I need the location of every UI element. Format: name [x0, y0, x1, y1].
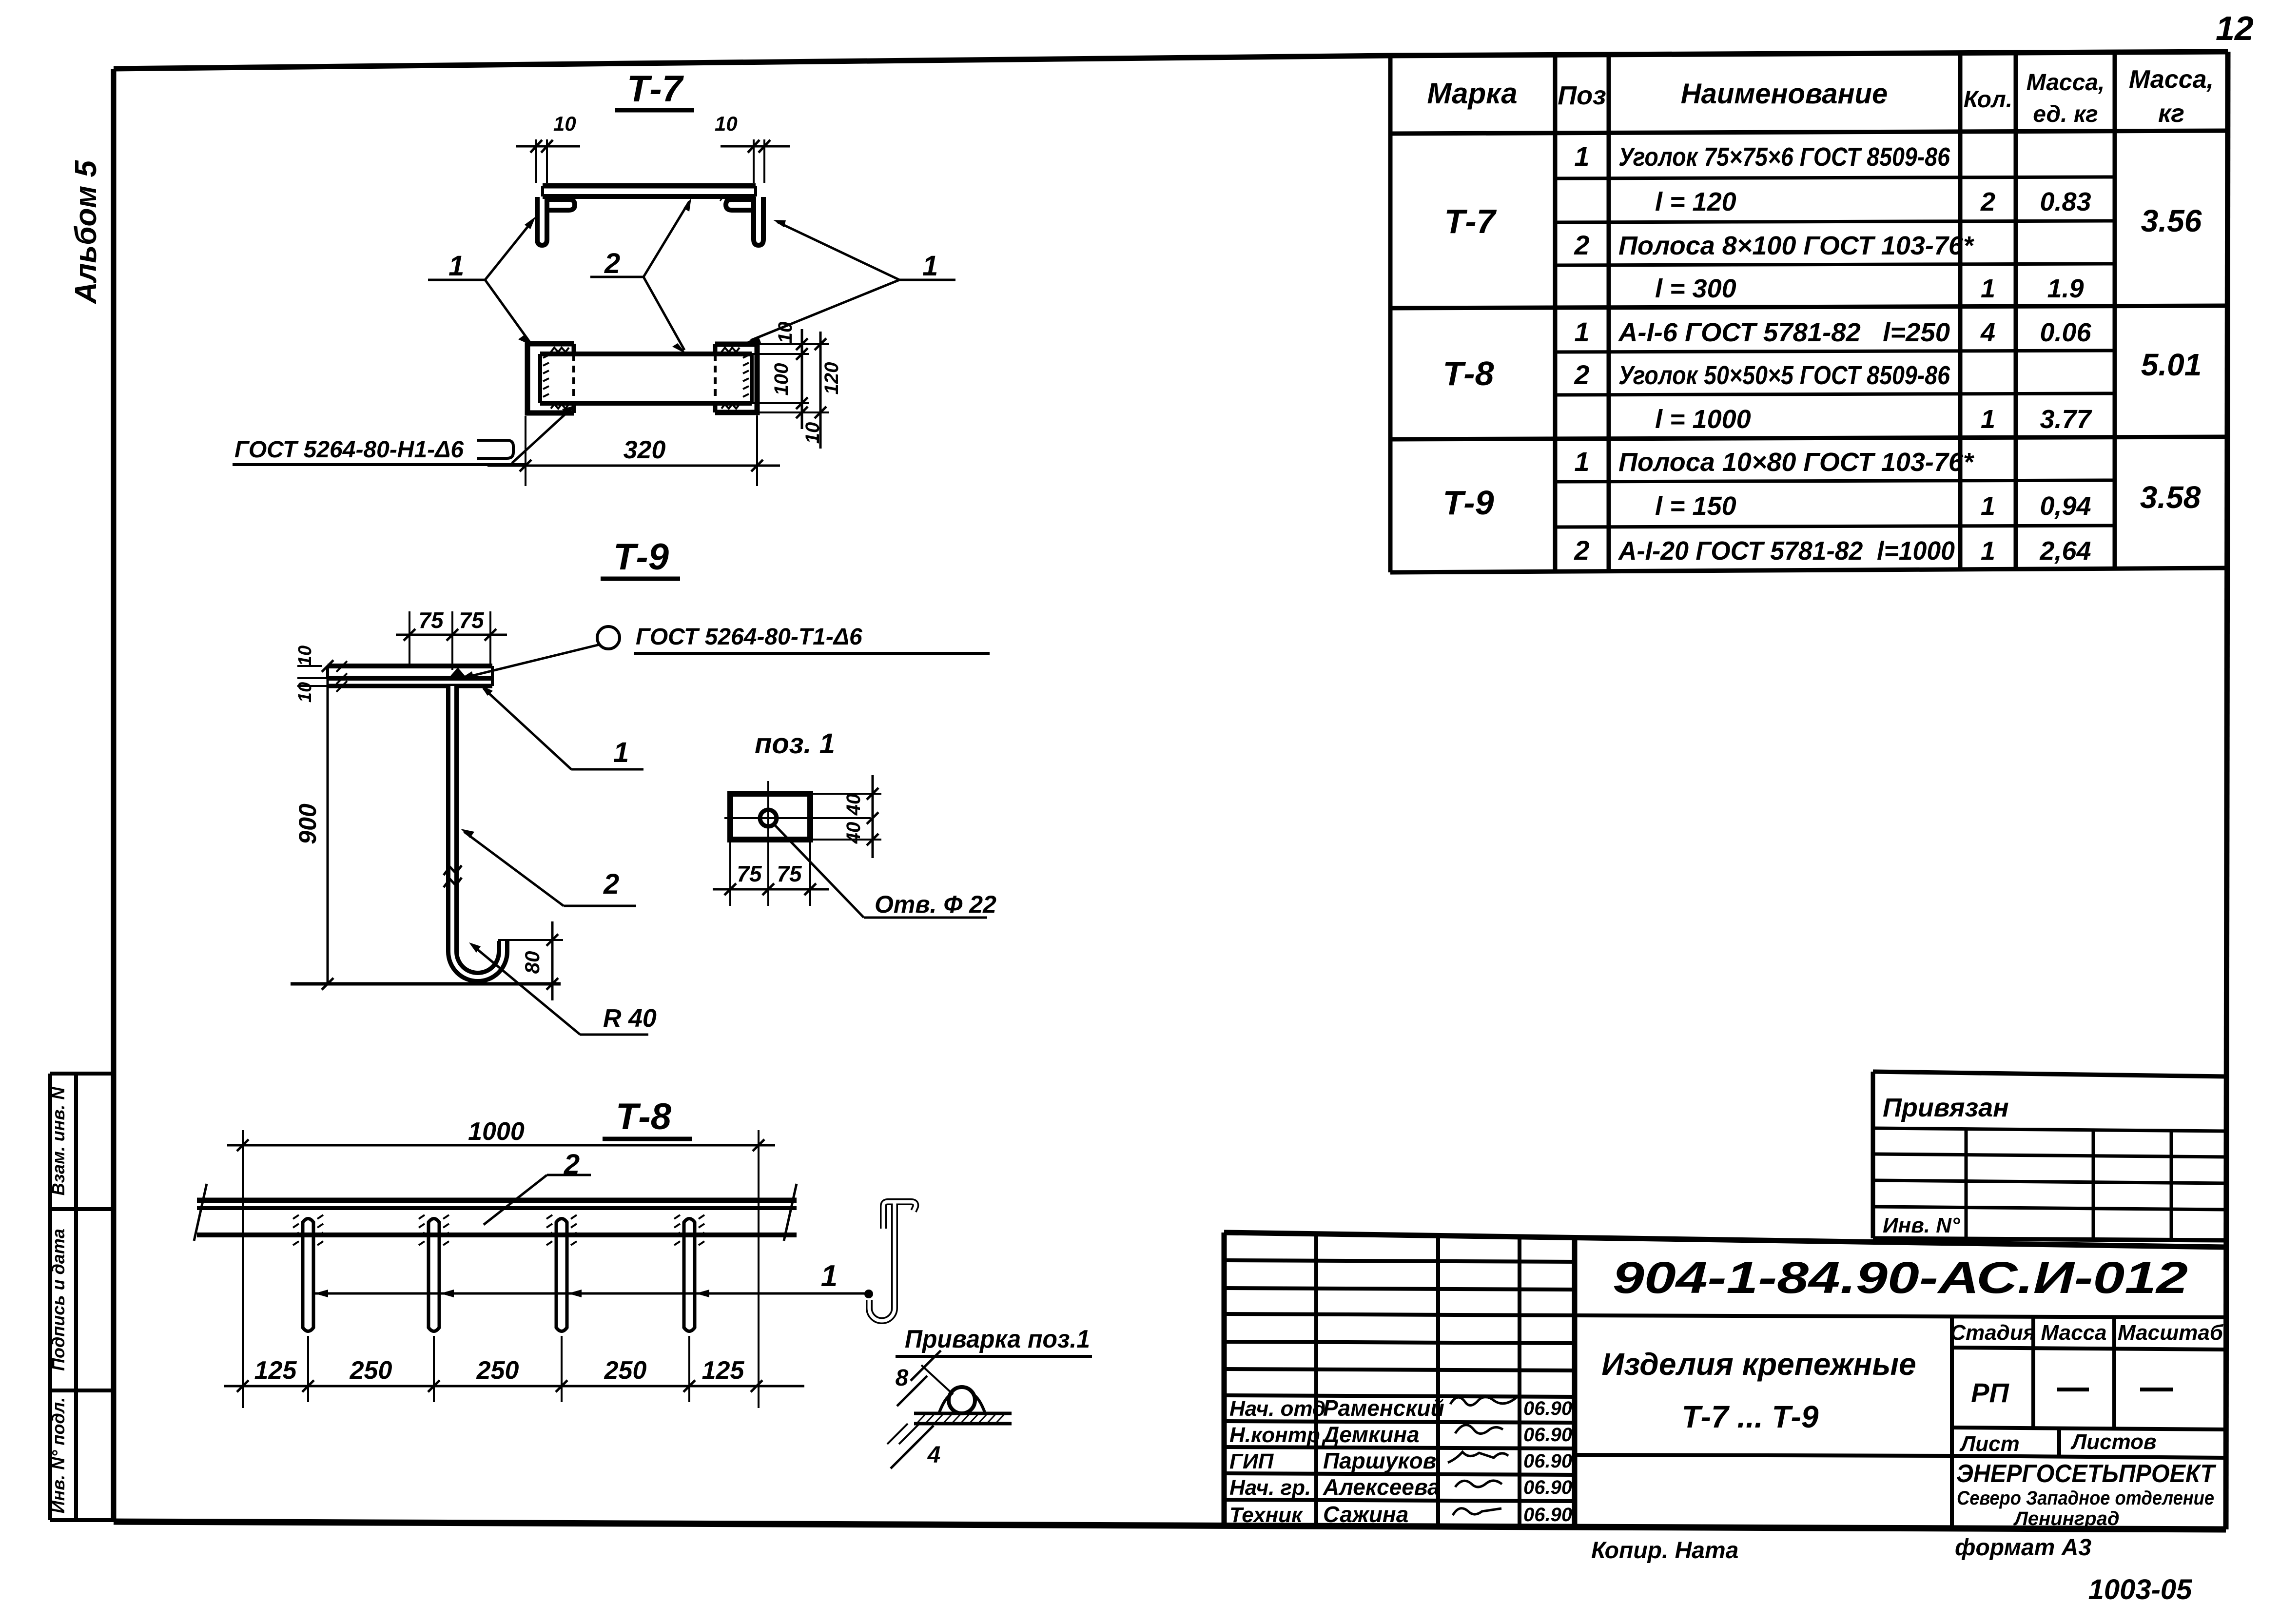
svg-text:Уголок 50×50×5 ГОСТ 8509-86: Уголок 50×50×5 ГОСТ 8509-86	[1618, 361, 1950, 390]
svg-text:80: 80	[521, 951, 544, 974]
svg-text:1: 1	[1981, 491, 1995, 521]
svg-text:0.06: 0.06	[2040, 318, 2091, 347]
svg-text:Поз: Поз	[1558, 81, 1606, 110]
svg-text:Масса: Масса	[2041, 1321, 2106, 1345]
svg-text:Масса,: Масса,	[2027, 70, 2105, 96]
hook rod 2	[429, 1219, 439, 1331]
weld bead	[448, 667, 467, 678]
right angle profile	[754, 197, 763, 245]
svg-text:Подпись и дата: Подпись и дата	[48, 1229, 68, 1371]
svg-text:кг: кг	[2158, 99, 2184, 128]
svg-text:Демкина: Демкина	[1321, 1422, 1420, 1447]
svg-text:75: 75	[418, 607, 444, 633]
dim 40/40 right	[810, 793, 881, 795]
svg-text:100: 100	[771, 363, 792, 396]
weld seam marks right	[720, 196, 747, 201]
svg-text:120: 120	[821, 362, 842, 395]
svg-text:0.83: 0.83	[2040, 187, 2091, 216]
svg-text:l = 150: l = 150	[1655, 491, 1736, 521]
rod break marks	[444, 865, 462, 875]
svg-text:Т-9: Т-9	[613, 536, 669, 578]
svg-text:2: 2	[1574, 359, 1589, 390]
hook rod 4	[684, 1219, 695, 1331]
plan right angle footprint	[715, 344, 757, 412]
svg-text:10: 10	[715, 112, 738, 135]
svg-text:75: 75	[737, 861, 762, 886]
svg-text:125: 125	[254, 1356, 297, 1385]
svg-text:Приварка поз.1: Приварка поз.1	[905, 1325, 1090, 1353]
svg-text:0,94: 0,94	[2040, 491, 2091, 521]
svg-text:Альбом 5: Альбом 5	[69, 159, 103, 305]
hook rod 1	[303, 1219, 313, 1331]
svg-text:2,64: 2,64	[2039, 536, 2091, 566]
svg-text:Привязан: Привязан	[1883, 1093, 2009, 1122]
svg-text:Полоса 8×100 ГОСТ 103-76*: Полоса 8×100 ГОСТ 103-76*	[1618, 231, 1975, 260]
weld detail: rod on plate	[949, 1387, 975, 1413]
svg-text:1: 1	[613, 737, 629, 768]
svg-text:1: 1	[1574, 316, 1589, 347]
svg-text:l = 1000: l = 1000	[1655, 405, 1751, 434]
svg-text:Марка: Марка	[1427, 77, 1517, 110]
svg-text:Копир. Ната: Копир. Ната	[1591, 1538, 1738, 1564]
svg-text:250: 250	[476, 1356, 519, 1385]
dims 10/100/10 and 120 right	[757, 343, 829, 345]
svg-text:Раменский: Раменский	[1323, 1395, 1444, 1421]
svg-text:06.90: 06.90	[1523, 1504, 1572, 1526]
lower dims 125/250/250/250/125	[307, 1336, 309, 1402]
svg-text:06.90: 06.90	[1523, 1450, 1572, 1472]
svg-text:40: 40	[843, 794, 864, 816]
svg-text:Инв. N° подл.: Инв. N° подл.	[48, 1397, 68, 1513]
svg-text:Стадия: Стадия	[1950, 1321, 2035, 1345]
svg-text:1: 1	[1981, 274, 1995, 303]
svg-text:10: 10	[295, 682, 315, 703]
R40 leader	[472, 945, 580, 1035]
svg-text:8: 8	[896, 1365, 909, 1391]
svg-text:4: 4	[1980, 318, 1995, 347]
svg-text:Т-7 ... Т-9: Т-7 ... Т-9	[1682, 1399, 1819, 1434]
svg-text:Наименование: Наименование	[1681, 78, 1888, 110]
svg-text:2: 2	[604, 248, 620, 279]
svg-text:Сажина: Сажина	[1323, 1502, 1408, 1527]
svg-text:Кол.: Кол.	[1964, 87, 2012, 113]
svg-text:Т-8: Т-8	[616, 1096, 672, 1137]
svg-text:40: 40	[843, 822, 864, 844]
svg-text:10: 10	[553, 112, 576, 135]
hole F22	[760, 810, 777, 826]
dim 900	[327, 666, 329, 984]
dim 320 bottom	[525, 416, 526, 486]
svg-text:Т-8: Т-8	[1443, 354, 1494, 392]
svg-text:75: 75	[459, 607, 485, 633]
svg-text:ГОСТ 5264-80-Т1-Δ6: ГОСТ 5264-80-Т1-Δ6	[636, 624, 862, 650]
svg-text:904-1-84.90-АС.И-012: 904-1-84.90-АС.И-012	[1613, 1253, 2188, 1303]
svg-text:06.90: 06.90	[1523, 1477, 1572, 1498]
plan left angle footprint	[527, 344, 574, 413]
svg-text:Инв. N°: Инв. N°	[1883, 1213, 1960, 1237]
svg-text:3.77: 3.77	[2040, 405, 2092, 434]
weld seam marks left	[548, 196, 575, 201]
hook cross-section profile	[869, 1202, 916, 1321]
svg-text:Уголок 75×75×6 ГОСТ 8509-86: Уголок 75×75×6 ГОСТ 8509-86	[1618, 142, 1950, 172]
svg-text:Т-7: Т-7	[627, 68, 684, 110]
dim 10 top-right	[753, 139, 755, 183]
svg-text:1: 1	[1574, 141, 1589, 172]
svg-text:1: 1	[1981, 405, 1995, 434]
svg-text:10: 10	[295, 646, 315, 666]
svg-text:Техник: Техник	[1229, 1503, 1304, 1527]
svg-text:Полоса 10×80 ГОСТ 103-76*: Полоса 10×80 ГОСТ 103-76*	[1618, 448, 1975, 477]
svg-text:ГИП: ГИП	[1229, 1449, 1274, 1473]
svg-text:Лист: Лист	[1959, 1432, 2020, 1456]
svg-text:5.01: 5.01	[2141, 347, 2202, 382]
thickness dims 10/10	[297, 665, 322, 667]
left margin stamp table	[50, 1074, 114, 1520]
svg-text:Нач. гр.: Нач. гр.	[1229, 1476, 1311, 1500]
svg-text:Листов: Листов	[2070, 1430, 2157, 1454]
svg-text:Масштаб: Масштаб	[2118, 1321, 2224, 1345]
svg-text:формат А3: формат А3	[1955, 1535, 2091, 1561]
svg-text:12: 12	[2216, 9, 2254, 47]
svg-text:Изделия крепежные: Изделия крепежные	[1601, 1347, 1916, 1382]
svg-text:900: 900	[294, 803, 321, 844]
svg-text:ед. кг: ед. кг	[2033, 101, 2098, 127]
materials table grid	[1390, 53, 2228, 572]
svg-text:поз. 1: поз. 1	[755, 728, 835, 760]
signature scribbles	[1450, 1397, 1516, 1405]
left angle profile	[537, 197, 547, 245]
svg-text:Нач. отд: Нач. отд	[1229, 1397, 1325, 1421]
T-9 plate edge view	[328, 664, 492, 668]
svg-text:А-I-6 ГОСТ 5781-82 l=250: А-I-6 ГОСТ 5781-82 l=250	[1617, 318, 1950, 347]
plan weld hatch right	[743, 355, 749, 397]
svg-text:3.58: 3.58	[2140, 480, 2201, 515]
beam break marks	[194, 1184, 207, 1241]
svg-text:1: 1	[448, 250, 464, 282]
svg-text:1: 1	[821, 1259, 838, 1293]
dim 75/75 top	[396, 634, 507, 636]
svg-text:06.90: 06.90	[1523, 1424, 1572, 1446]
svg-text:Алексеева: Алексеева	[1323, 1474, 1440, 1500]
T-7 plan view: strap	[540, 352, 752, 356]
svg-text:75: 75	[777, 861, 802, 886]
svg-text:1: 1	[922, 250, 938, 282]
svg-text:320: 320	[624, 436, 666, 464]
svg-text:1003-05: 1003-05	[2088, 1574, 2193, 1605]
plate rectangle	[730, 794, 810, 840]
svg-text:125: 125	[702, 1356, 745, 1385]
svg-text:1: 1	[1574, 446, 1589, 477]
T-7 strap edge view	[543, 183, 756, 189]
svg-text:1: 1	[1981, 536, 1995, 566]
svg-text:2: 2	[603, 868, 619, 900]
svg-text:06.90: 06.90	[1523, 1398, 1572, 1419]
svg-text:250: 250	[604, 1356, 647, 1385]
weld leader	[464, 645, 600, 678]
dim 80 hook	[498, 939, 563, 941]
svg-text:ГОСТ 5264-80-Н1-Δ6: ГОСТ 5264-80-Н1-Δ6	[234, 437, 464, 463]
svg-text:Масса,: Масса,	[2129, 65, 2214, 94]
svg-text:Северо Западное отделение: Северо Западное отделение	[1957, 1487, 2214, 1509]
svg-text:1.9: 1.9	[2047, 274, 2084, 303]
svg-text:2: 2	[1980, 187, 1995, 216]
weld point circle	[597, 626, 620, 649]
svg-text:Т-9: Т-9	[1443, 484, 1494, 522]
svg-text:РП: РП	[1971, 1377, 2009, 1408]
svg-text:ЭНЕРГОСЕТЬПРОЕКТ: ЭНЕРГОСЕТЬПРОЕКТ	[1956, 1460, 2217, 1488]
rod poz.2	[452, 686, 503, 977]
svg-text:l = 300: l = 300	[1655, 274, 1736, 303]
svg-text:Т-7: Т-7	[1444, 202, 1497, 240]
svg-text:Н.контр: Н.контр	[1229, 1423, 1320, 1447]
svg-text:2: 2	[1574, 535, 1589, 566]
svg-text:4: 4	[927, 1442, 941, 1468]
svg-text:Отв. Ф 22: Отв. Ф 22	[875, 891, 996, 918]
ground line	[291, 982, 561, 986]
sheet frame	[114, 52, 2228, 69]
svg-text:2: 2	[1574, 230, 1589, 260]
svg-text:Ленинград: Ленинград	[2013, 1508, 2119, 1529]
svg-text:250: 250	[350, 1356, 392, 1385]
svg-text:1000: 1000	[468, 1117, 525, 1146]
svg-text:l = 120: l = 120	[1655, 187, 1736, 216]
svg-text:Взам. инв. N: Взам. инв. N	[48, 1087, 68, 1196]
svg-text:R 40: R 40	[603, 1004, 657, 1033]
svg-text:3.56: 3.56	[2141, 203, 2202, 238]
plan weld hatch left	[543, 355, 549, 397]
svg-text:10: 10	[775, 322, 796, 344]
svg-text:Паршуков: Паршуков	[1323, 1448, 1436, 1473]
centerlines	[724, 817, 871, 819]
dim 10 top-left	[535, 139, 537, 183]
dim 75/75 bottom	[729, 840, 731, 906]
hook rod 3	[556, 1219, 567, 1331]
angle beam side view	[197, 1198, 797, 1203]
hole leader Otv F22	[775, 825, 864, 918]
svg-text:А-I-20 ГОСТ 5781-82 l=1000: А-I-20 ГОСТ 5781-82 l=1000	[1617, 536, 1955, 566]
